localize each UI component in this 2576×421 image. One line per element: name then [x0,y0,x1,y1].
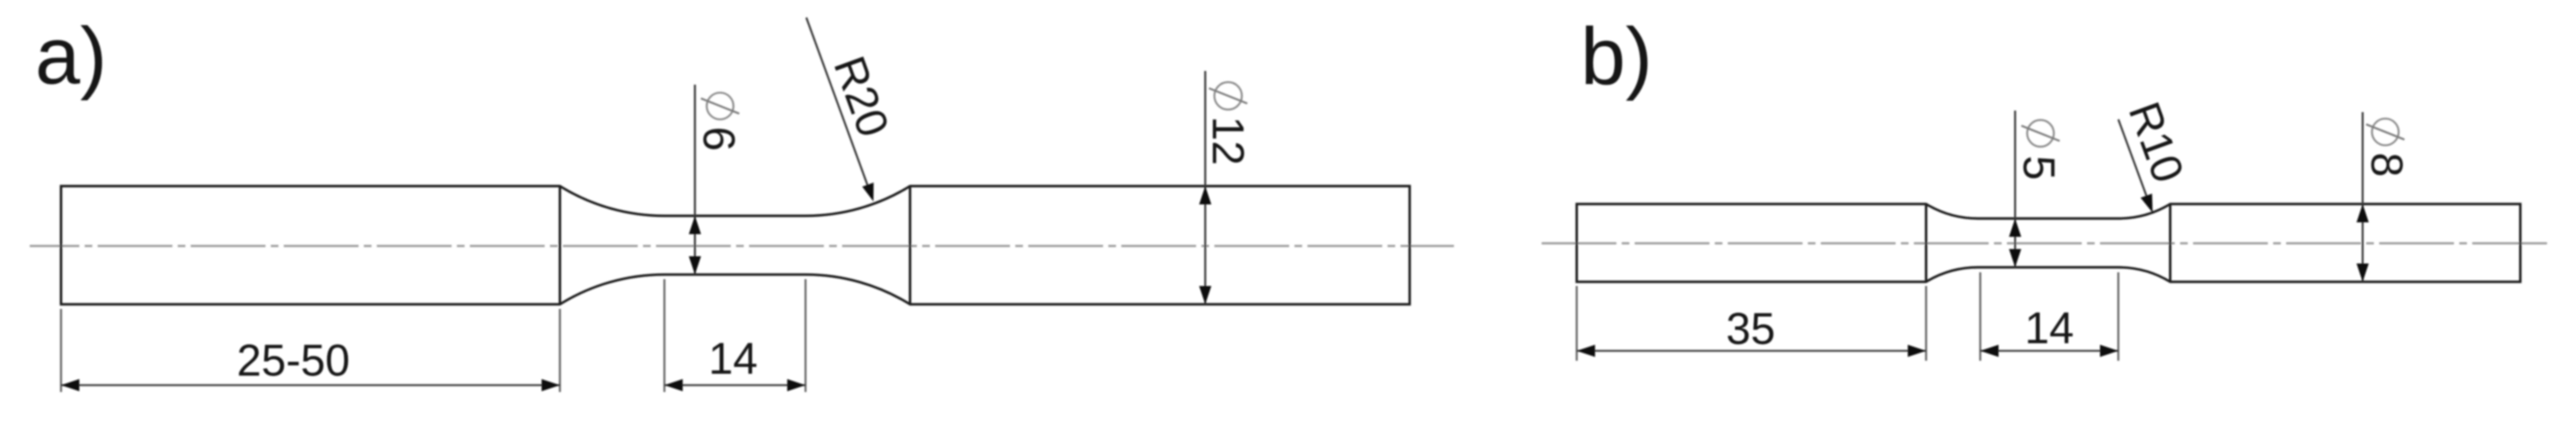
dimension line dia8 [2362,112,2364,282]
centerline specimen b [1542,243,2552,245]
arrow R10 [2140,194,2153,213]
extension line 14a right [805,279,807,392]
arrow R20 [862,182,873,201]
dimension line dia12 [1204,71,1207,304]
dia symbol of dia8 [2372,119,2399,146]
arrow dia5 down [2009,249,2021,268]
dia symbol of dia6 [707,93,734,120]
arrow dia8 up [2356,204,2369,223]
extension line 14b left [1979,272,1982,361]
arrow dia12 up [1199,186,1211,204]
svg-text:b): b) [1581,11,1652,101]
dimension line dia6 [694,85,696,275]
svg-text:14: 14 [2024,304,2074,353]
svg-text:6: 6 [693,127,743,151]
svg-text:8: 8 [2362,153,2411,177]
svg-text:a): a) [35,11,107,101]
specimen b outline [1577,204,2520,282]
extension line 14b right [2118,272,2120,361]
arrow dia5 up [2009,219,2021,237]
specimen a outline [61,186,1410,304]
dimension line 14a [664,384,806,387]
svg-text:35: 35 [1726,304,1776,354]
arrow 14b right [2100,345,2118,357]
arrow 35 left [1577,345,1595,357]
specimen a left shoulder edge [558,186,561,304]
extension line 25-50 left [60,309,63,392]
extension line 14a left [664,279,666,392]
leader line R10 [2118,120,2150,205]
arrow 35 right [1908,345,1926,357]
dimension line 35 [1577,350,1926,352]
centerline specimen a [30,245,1454,247]
svg-text:12: 12 [1203,116,1253,166]
svg-text:R10: R10 [2119,95,2193,188]
svg-text:14: 14 [709,334,758,384]
arrow dia8 down [2356,264,2369,282]
specimen b left shoulder edge [1925,204,1927,282]
extension line 35 left [1576,286,1578,361]
dimension line 14b [1980,350,2118,352]
arrow 14b left [1980,345,1999,357]
extension line 25-50 right [559,309,561,392]
svg-text:25-50: 25-50 [236,336,349,386]
dia symbol of dia5 [2028,120,2054,146]
specimen b right shoulder edge [2169,204,2171,282]
dimension line 25-50 [61,384,560,387]
dia symbol of dia12 [1214,82,1242,110]
specimen a right shoulder edge [909,186,911,304]
svg-text:5: 5 [2014,156,2063,180]
arrow 14a right [787,379,806,391]
leader line R20 [806,18,870,193]
arrow 25-50 left [61,379,79,391]
arrow 25-50 right [542,379,560,391]
arrow dia6 up [689,216,701,234]
arrow dia12 down [1199,286,1211,304]
arrow 14a left [664,379,683,391]
svg-text:R20: R20 [824,50,898,143]
extension line 35 right [1925,286,1928,361]
arrow dia6 down [689,256,701,275]
dimension line dia5 [2014,111,2016,268]
